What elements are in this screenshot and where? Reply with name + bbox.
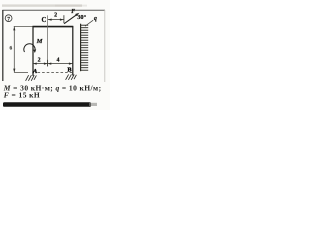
dim 6 arrow top [13,27,15,31]
distributed load q envelope [80,24,82,71]
svg-text:2: 2 [38,57,41,63]
load arrows [81,25,88,70]
q leader line [85,20,93,26]
svg-text:2: 2 [54,13,57,19]
top dim line 2 [48,19,64,21]
F application tick [63,15,65,23]
dim 6 extension line top [14,25,33,27]
svg-text:M: M [36,38,44,45]
dim 6 arrow bottom [13,69,15,73]
svg-text:F = 15 кН: F = 15 кН [4,91,40,100]
border frame right [104,10,106,82]
node C line [47,15,49,66]
svg-text:6: 6 [10,45,13,51]
svg-text:q: q [94,16,97,22]
border frame left [2,10,4,81]
beam top [33,26,74,28]
dim 6 vertical line [13,27,15,73]
svg-text:C: C [42,17,47,24]
border frame top [2,9,105,11]
svg-text:A: A [32,68,38,75]
svg-text:7: 7 [7,16,10,22]
moment M arc [24,44,35,52]
bottom black bar [3,102,91,107]
support B hatching [66,74,77,79]
variant circle 7 [5,15,12,22]
right leg [72,26,74,75]
ground dashed line [38,72,73,74]
bottom dim line 2 and 4 [33,63,73,65]
left leg [32,26,34,76]
svg-text:4: 4 [57,57,60,63]
mid tick [47,60,49,67]
dim 6 extension line bottom [14,71,28,73]
scan noise streak top [2,4,82,6]
force F arrow [64,14,77,23]
svg-text:30°: 30° [77,14,86,21]
support A hatching [26,75,37,81]
svg-text:F: F [71,9,75,15]
